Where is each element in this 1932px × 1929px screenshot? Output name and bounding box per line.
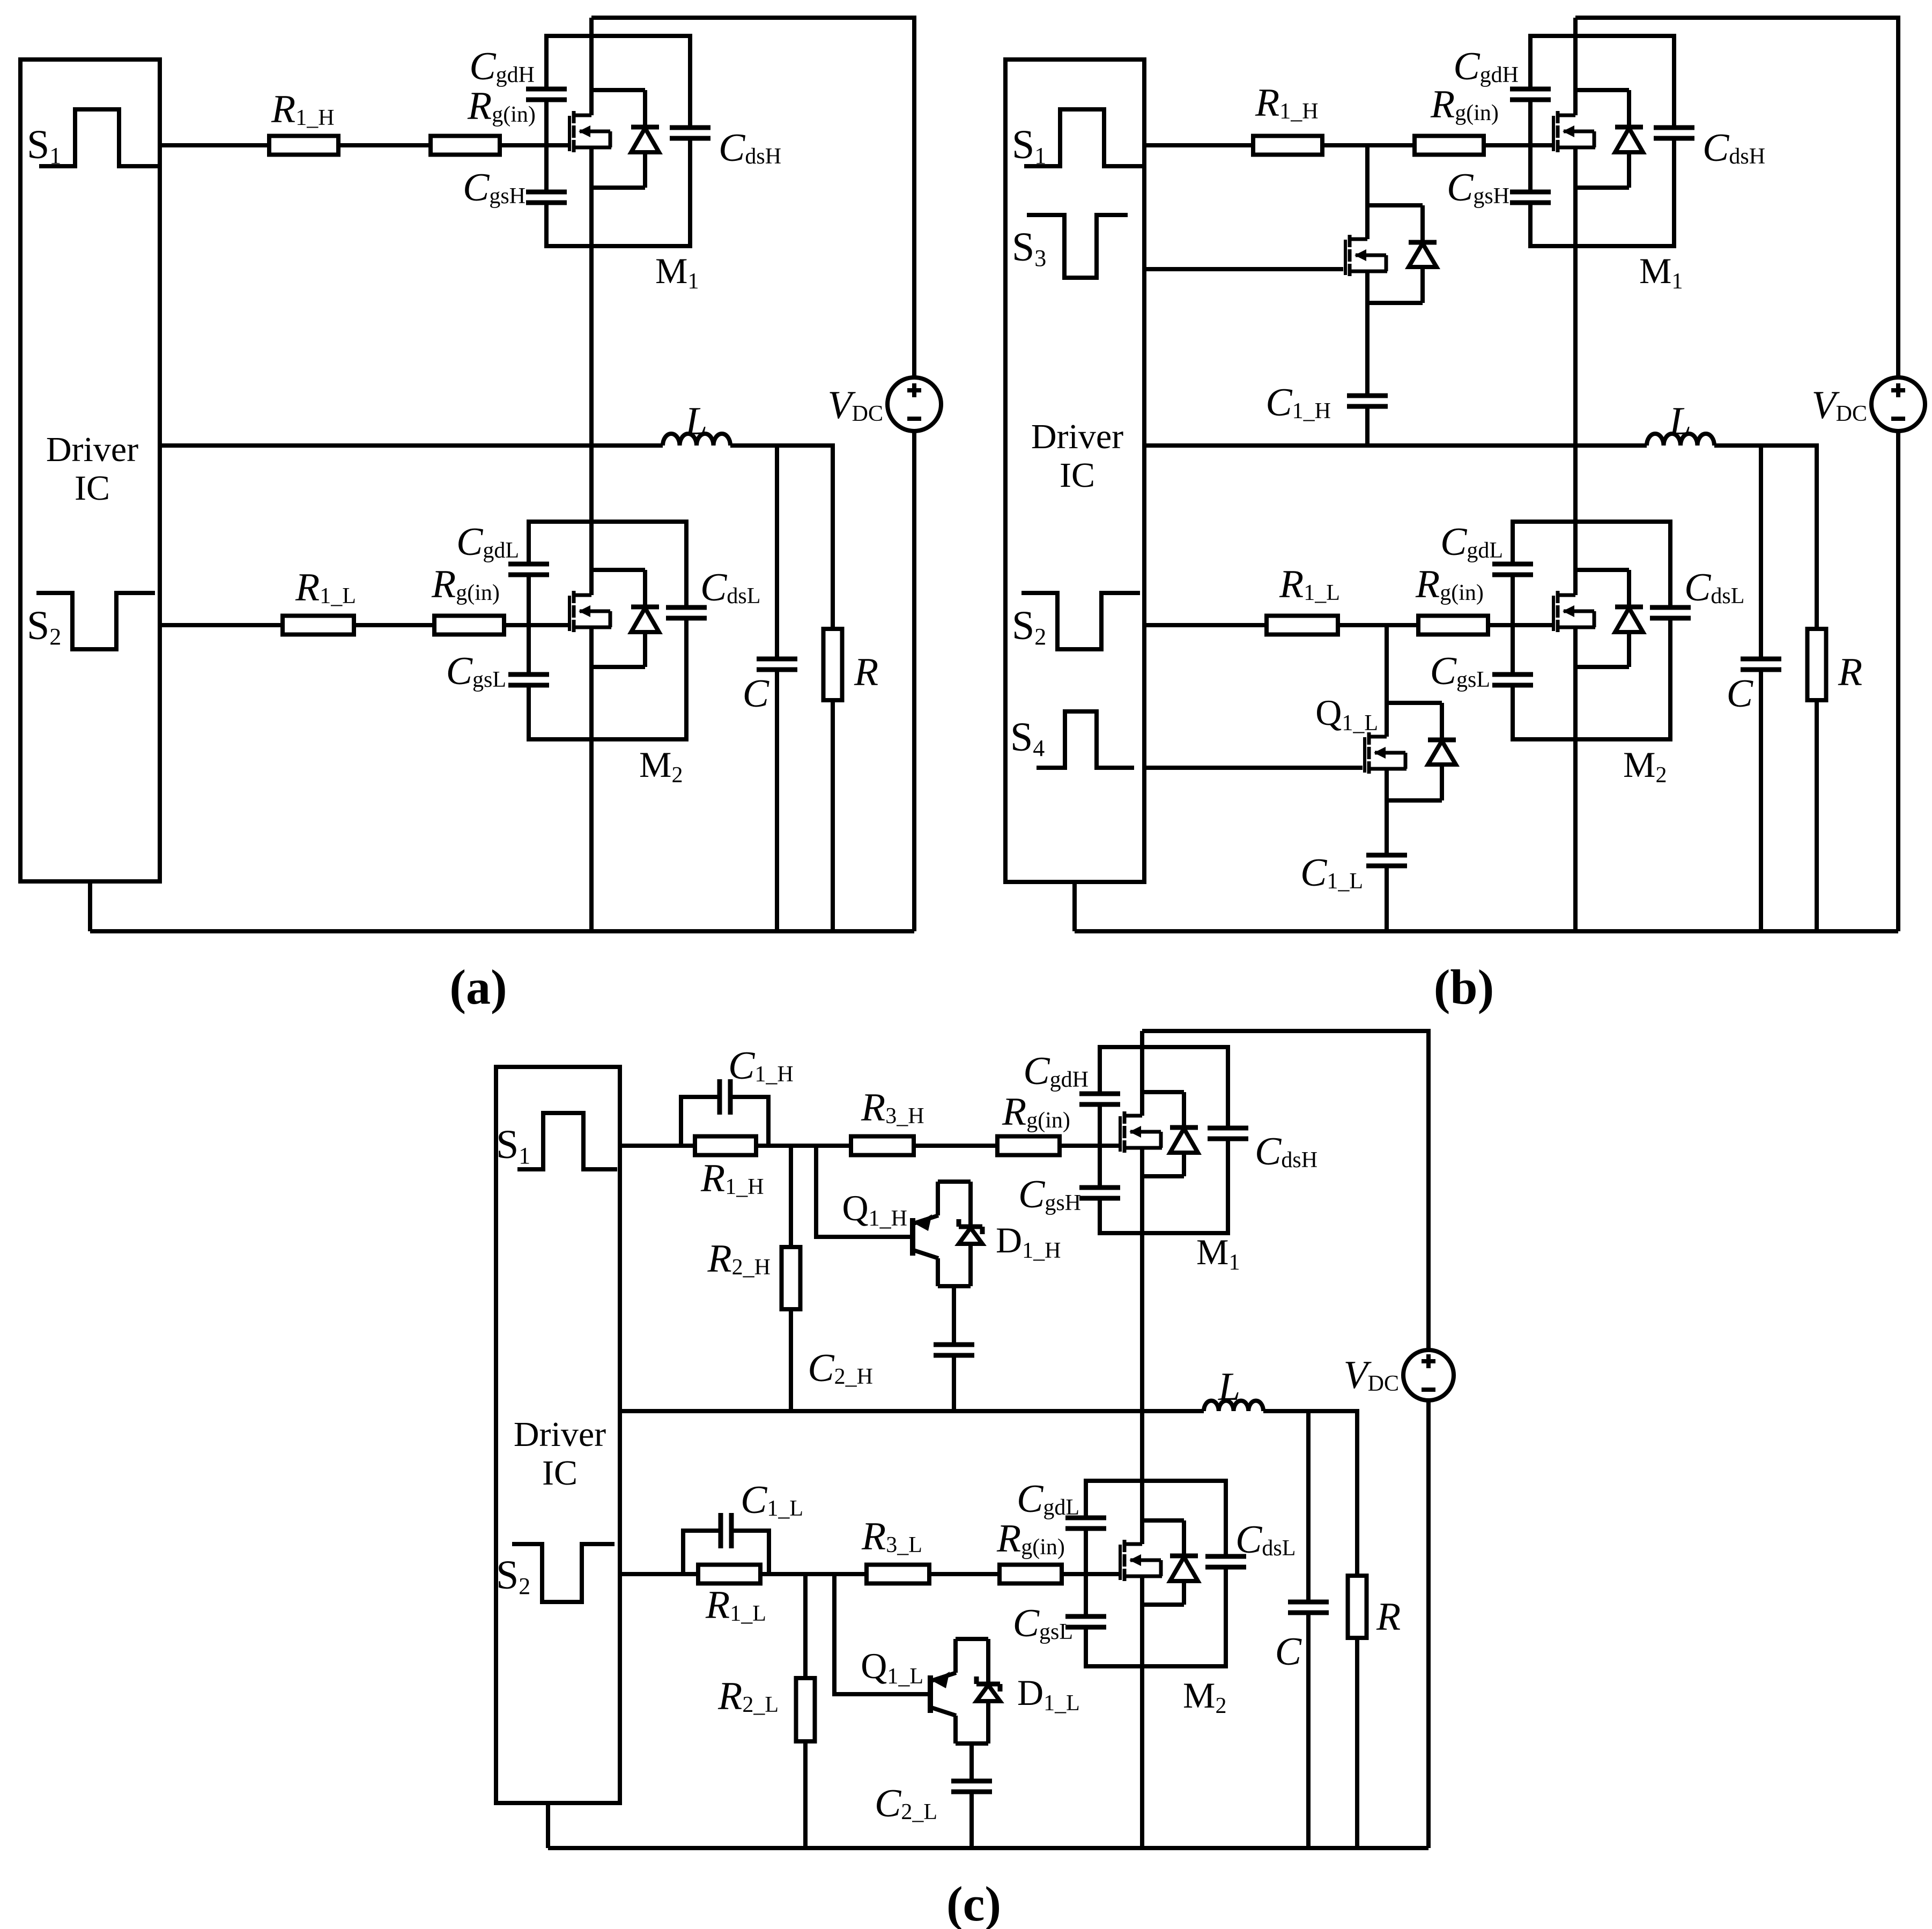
resistor R load (c) [1348,1576,1367,1638]
wire R1_H to Rg(in) with Q-branch junction (b) [1322,143,1415,147]
wire S1 output to R1_H node (c) [620,1144,695,1148]
svg-text:(c): (c) [946,1876,1001,1929]
svg-text:IC: IC [75,469,110,508]
mosfet M2 package box (a) [529,522,686,739]
wire VDC negative to bottom bus (a) [912,431,916,931]
wire inductor to load corner (a) [730,446,833,629]
wire M1 source down through phase node to M2 drain (b) [1573,147,1578,595]
body diode of high side aux mosfet (b) [1367,203,1423,207]
capacitor CgdL (a) [522,566,535,573]
resistor R1_H (a) [269,136,338,155]
wire S4 output to aux gate (b) [1144,766,1363,770]
driver IC U1 (b) [1005,60,1144,882]
driver IC U1 (c) [496,1067,620,1803]
wire C branch from phase rail (b) [1759,446,1763,659]
wire C1_H parallel loop (c) [681,1097,720,1146]
mosfet M2 package box (b) [1513,522,1670,739]
pulse source S2 waveform (b) [1021,593,1140,649]
voltage source VDC (c) [1403,1350,1454,1400]
resistor R1_L (a) [283,616,354,635]
wire driver ground stub (a) [88,881,92,931]
capacitor C1_L (c) [723,1524,729,1537]
wire S2 output to R1_L node (c) [620,1572,698,1576]
wire Rg(in) to M1 gate (a) [500,143,569,147]
wire C load to bottom bus (a) [775,670,779,931]
pulse source S4 waveform (b) [1037,711,1134,768]
capacitor CgsL (b) [1506,677,1519,683]
wire C2_L to bottom bus (c) [969,1792,974,1848]
capacitor C load (a) [771,661,783,667]
pulse source S1 waveform (a) [39,109,158,166]
wire C branch from phase rail (a) [775,446,779,659]
svg-text:(b): (b) [1434,960,1494,1014]
wire Q1_L loop to C2_L (c) [969,1743,974,1781]
capacitor CdsH (b) [1668,130,1681,136]
resistor R load (b) [1808,629,1826,700]
wire R1_L to Rg(in) with Q-branch junction (b) [1338,623,1418,627]
inductor L (a) [663,434,730,446]
capacitor CdsL (a) [680,610,693,616]
wire phase rail driver to inductor (a) [160,443,663,448]
capacitor CgsH (c) [1093,1190,1106,1196]
wire C1_L to bottom bus (b) [1385,866,1389,931]
resistor Rg(in) low side (a) [434,616,504,635]
resistor Rg(in) low side (c) [1000,1565,1062,1584]
diode D1_L (c) [986,1639,990,1684]
svg-text:C: C [1727,672,1754,716]
wire Rg(in) to M2 gate (a) [504,623,569,627]
mosfet M1 package box (a) [546,36,690,246]
wire C2_H to mid rail (c) [952,1355,956,1411]
resistor Rg(in) high side (a) [431,136,500,155]
capacitor CgsH (a) [540,194,553,201]
transistor Q1_L (c) [928,1675,933,1713]
circuit (b) gate driver with series capacitors [1005,18,1925,1014]
body diode of M1 (b) [1575,88,1629,92]
capacitor CgdH (c) [1093,1096,1106,1102]
body diode of aux mosfet Q1_L (b) [1387,701,1442,705]
svg-text:C: C [1275,1630,1302,1674]
svg-text:L: L [1218,1365,1240,1409]
wire M1 drain to top rail (c) [1140,1031,1144,1116]
wire Q1_H emitter loop top (c) [938,1179,971,1184]
capacitor CgdH (b) [1524,91,1537,98]
inductor L (b) [1647,434,1714,446]
capacitor C2_L (c) [965,1783,978,1790]
transistor Q1_H (c) [910,1218,915,1256]
wire R load to bottom bus (c) [1355,1638,1359,1848]
wire C1_L parallel loop (c) [683,1531,721,1574]
pulse source S1 waveform (c) [517,1113,617,1169]
svg-text:L: L [1669,399,1691,443]
resistor R load (a) [824,629,842,700]
wire Rg(in) to M2 gate (b) [1488,623,1553,627]
auxiliary mosfet Q1_L (b) [1363,737,1366,773]
wire R3_H to Rg(in) (c) [914,1144,997,1148]
wire C1_H loop right side (c) [730,1097,768,1146]
wire junction to Q1_H base (c) [816,1146,910,1237]
body diode of M1 (a) [591,88,645,92]
diode D1_H (c) [968,1182,973,1227]
capacitor CgsH (b) [1524,194,1537,201]
capacitor CdsH (a) [684,130,697,136]
wire C load to bottom bus (b) [1759,670,1763,931]
wire R load to bottom bus (b) [1815,700,1819,931]
svg-text:Driver: Driver [1031,417,1123,456]
capacitor C1_L (b) [1380,857,1393,864]
wire C1_H to phase rail (b) [1365,406,1370,446]
capacitor CgdL (c) [1079,1520,1092,1526]
wire junction to aux switch drain (b) [1385,625,1389,737]
capacitor CgdH (a) [540,91,553,98]
capacitor C1_H (c) [722,1090,728,1103]
wire VDC negative to bottom bus (b) [1896,431,1900,931]
mosfet M1 (b) [1552,116,1555,151]
mosfet M2 (a) [568,596,571,631]
wire Q1_L emitter loop top (c) [956,1637,988,1641]
wire Q1_H collector loop bottom (c) [938,1284,971,1288]
wire inductor to load corner (c) [1263,1411,1357,1576]
mosfet M2 package box (c) [1086,1481,1226,1666]
svg-text:(a): (a) [449,960,507,1014]
resistor R1_L (b) [1267,616,1338,635]
svg-text:R: R [1838,650,1862,694]
svg-text:L: L [685,399,707,443]
wire Rg(in) to M1 gate (c) [1060,1144,1119,1148]
wire driver ground stub (b) [1072,882,1077,931]
auxiliary mosfet high side (b) [1344,240,1347,275]
pulse source S1 waveform (b) [1024,109,1143,166]
wire junction to Q1_L base (c) [834,1574,928,1694]
resistor R3_L (c) [867,1565,929,1584]
inductor L (c) [1204,1401,1263,1411]
pulse source S2 waveform (a) [36,593,155,649]
capacitor CgsL (c) [1079,1619,1092,1625]
wire R1_H to Rg(in) (a) [338,143,431,147]
body diode of M2 (c) [1142,1518,1184,1523]
capacitor CdsL (c) [1219,1559,1232,1565]
resistor R3_H (c) [851,1137,914,1155]
wire Q1_L collector loop bottom (c) [956,1741,988,1746]
body diode of M2 (b) [1575,568,1629,572]
wire top rail M1 drain to VDC (b) [1575,18,1898,377]
wire R2_L to bottom bus (c) [803,1741,808,1848]
circuit (a) buck converter with conventional gate driver [20,18,941,1014]
pulse source S2 waveform (c) [512,1544,615,1602]
wire Q1_H loop to C2_H (c) [952,1286,956,1345]
wire R1_L to R3_L with junctions (c) [760,1572,867,1576]
wire S2 output to R1_L (a) [160,623,283,627]
wire M2 source to bottom bus (b) [1573,627,1578,931]
mosfet M1 (c) [1119,1116,1122,1152]
wire M1 drain to top rail (b) [1573,18,1578,115]
wire aux source to C1_L (b) [1385,769,1389,855]
wire S1 output to R1_H (b) [1144,143,1253,147]
pulse source S3 waveform (b) [1027,215,1128,278]
wire junction to aux switch drain (b) [1365,145,1370,239]
wire S3 output to aux gate (b) [1144,267,1343,271]
resistor Rg(in) low side (b) [1418,616,1488,635]
wire bottom bus (c) [548,1846,1428,1850]
driver IC U1 (a) [20,60,160,881]
wire M1 source down to phase rail (c) [1140,1148,1144,1411]
wire top rail M1 drain to VDC (a) [591,18,914,377]
wire M1 drain to top rail (a) [589,18,594,115]
resistor Rg(in) high side (c) [997,1137,1060,1155]
wire S1 output to R1_H (a) [160,143,269,147]
wire inductor to load corner (b) [1714,446,1817,629]
wire Rg(in) to M1 gate (b) [1484,143,1553,147]
wire R load to bottom bus (a) [831,700,835,931]
resistor R1_H (c) [695,1137,756,1155]
capacitor C1_H (b) [1361,398,1374,404]
wire R1_H to R3_H with junctions (c) [756,1144,851,1148]
wire aux source to C1_H (b) [1365,271,1370,396]
resistor R2_H (c) [782,1247,801,1309]
wire M2 source to bottom bus (c) [1140,1576,1144,1848]
svg-text:Driver: Driver [514,1415,606,1454]
wire phase rail driver to inductor (b) [1144,443,1647,448]
capacitor C load (b) [1755,661,1767,667]
capacitor CgsL (a) [522,677,535,683]
capacitor CdsL (b) [1664,610,1677,616]
wire top rail M1 drain to VDC (c) [1142,1031,1428,1350]
wire C branch from mid rail (c) [1306,1411,1311,1602]
svg-text:R: R [854,650,878,694]
mosfet M1 (a) [568,116,571,151]
wire C1_L loop right side (c) [731,1531,769,1574]
capacitor CdsH (c) [1222,1130,1234,1137]
resistor R2_L (c) [796,1678,815,1741]
capacitor CgdL (b) [1506,566,1519,573]
mosfet M2 (c) [1119,1545,1122,1580]
capacitor C2_H (c) [948,1347,960,1353]
wire R3_L to Rg(in) (c) [929,1572,1000,1576]
body diode of M1 (c) [1142,1090,1184,1094]
svg-text:IC: IC [1060,456,1095,495]
voltage source VDC (a) [887,377,941,431]
wire M2 drain to phase rail (c) [1140,1411,1144,1544]
mosfet M1 package box (b) [1530,36,1674,246]
svg-text:C: C [743,672,770,716]
wire R1_L to Rg(in) low (a) [354,623,434,627]
wire M1 source down to phase node and M2 drain (a) [589,147,594,595]
circuit (c) gate driver with RC network and BJT clamp [496,1031,1454,1929]
body diode of M2 (a) [591,568,645,572]
wire bottom bus (b) [1075,929,1898,933]
mosfet M1 package box (c) [1100,1047,1228,1233]
wire C load to bottom bus (c) [1306,1613,1311,1848]
svg-text:Driver: Driver [46,430,138,469]
resistor R1_H (b) [1253,136,1322,155]
mosfet M2 (b) [1552,596,1555,631]
resistor Rg(in) high side (b) [1415,136,1484,155]
capacitor C load (c) [1302,1604,1315,1611]
svg-text:R: R [1376,1595,1401,1639]
wire M2 source to bottom bus (a) [589,627,594,931]
resistor R1_L (c) [698,1565,760,1584]
wire junction to R2_H (c) [789,1146,793,1247]
wire Rg(in) to M2 gate (c) [1062,1572,1119,1576]
wire driver ground stub (c) [546,1803,550,1848]
voltage source VDC (b) [1871,377,1925,431]
wire junction to R2_L (c) [803,1574,808,1678]
svg-text:IC: IC [542,1453,578,1493]
wire S2 output to R1_L (b) [1144,623,1267,627]
wire bottom bus (a) [90,929,914,933]
wire mid rail driver to inductor (c) [620,1409,1204,1413]
wire R2_H to mid rail (c) [789,1309,793,1411]
wire VDC negative to bottom bus (c) [1426,1400,1431,1848]
